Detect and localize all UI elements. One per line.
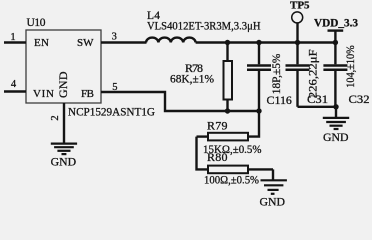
- pin 4 wire: [4, 90, 26, 92]
- svg-text:18P,±5%: 18P,±5%: [269, 54, 283, 95]
- label U10: [27, 17, 46, 29]
- svg-text:GND: GND: [260, 196, 286, 207]
- svg-text:3: 3: [112, 32, 117, 43]
- capacitor C32: [323, 43, 347, 107]
- inductor L4: [146, 38, 196, 43]
- test point TP5: [292, 12, 303, 43]
- svg-text:104,±10%: 104,±10%: [343, 45, 357, 88]
- pin name VIN: [33, 88, 54, 100]
- svg-text:R80: R80: [207, 150, 228, 164]
- resistor R78: [224, 43, 233, 112]
- wire C31/C32 bottoms: [298, 106, 337, 108]
- pin number 5: [112, 82, 117, 93]
- resistor R79: [197, 133, 249, 141]
- label TP5: [290, 0, 310, 12]
- value 15KOhm,+-0.5%: [203, 142, 262, 156]
- value 68K,+-1%: [170, 72, 214, 86]
- value 100Ohm,+-0.5%: [204, 172, 259, 186]
- label GND (U10 ground): [51, 157, 77, 169]
- svg-text:1: 1: [10, 32, 15, 43]
- svg-text:VLS4012ET-3R3M,3.3μH: VLS4012ET-3R3M,3.3μH: [147, 19, 261, 33]
- svg-text:SW: SW: [77, 37, 94, 49]
- pin name GND (rotated): [56, 71, 70, 98]
- svg-text:TP5: TP5: [290, 0, 310, 12]
- IC U10 body: [26, 30, 101, 103]
- label R78: [185, 61, 203, 75]
- svg-text:226,22μF: 226,22μF: [306, 49, 320, 98]
- node dot at C116 top: [256, 40, 261, 45]
- pin name EN: [34, 37, 49, 49]
- pin 3 wire (SW to L4): [101, 41, 147, 43]
- ground symbol at R80: [261, 180, 287, 194]
- node dot at R78 bottom: [225, 108, 230, 113]
- wire output net (L4 to C32): [196, 41, 337, 43]
- pin 1 wire: [4, 41, 26, 43]
- svg-text:100Ω,±0.5%: 100Ω,±0.5%: [204, 172, 259, 186]
- label GND (output ground): [323, 132, 349, 144]
- label C32: [349, 92, 370, 106]
- label C116: [267, 93, 292, 107]
- label NCP1529ASNT1G: [68, 104, 155, 118]
- label C31: [307, 92, 328, 106]
- capacitor C116: [247, 43, 271, 112]
- pin number 4: [11, 79, 17, 90]
- svg-text:FB: FB: [81, 88, 94, 100]
- value 104,+-10% (rotated): [343, 45, 357, 88]
- node dot at R78 top: [225, 40, 230, 45]
- pin number 2 (rotated): [50, 115, 61, 120]
- capacitor C31: [286, 43, 310, 107]
- wire R80 to ground: [272, 169, 274, 180]
- wire R79 to R80: [197, 137, 209, 170]
- ground symbol under U10 pin 2: [51, 144, 77, 155]
- node dot at ground junction: [333, 104, 338, 109]
- svg-text:R79: R79: [207, 119, 228, 133]
- svg-text:GND: GND: [51, 157, 77, 169]
- power net VDD_3.3: [314, 16, 358, 43]
- svg-text:GND: GND: [323, 132, 349, 144]
- value 18P,+-5% (rotated): [269, 54, 283, 95]
- svg-text:VDD_3.3: VDD_3.3: [314, 16, 358, 30]
- svg-text:4: 4: [11, 79, 17, 90]
- label R80: [207, 150, 228, 164]
- ground symbol at output caps: [323, 118, 349, 129]
- svg-text:VIN: VIN: [33, 88, 54, 100]
- svg-text:2: 2: [50, 115, 61, 120]
- svg-text:GND: GND: [56, 71, 70, 98]
- svg-text:5: 5: [112, 82, 117, 93]
- svg-text:NCP1529ASNT1G: NCP1529ASNT1G: [68, 104, 155, 118]
- resistor R80: [208, 166, 273, 174]
- label L4: [147, 10, 160, 22]
- pin name SW: [77, 37, 94, 49]
- svg-text:C32: C32: [349, 92, 370, 106]
- node dot at TP5/C31: [295, 40, 300, 45]
- label VLS4012ET-3R3M,3.3uH: [147, 19, 261, 33]
- FB net: pin 5 wire: [101, 92, 259, 111]
- wire FB node down to R79: [248, 111, 259, 137]
- pin number 3: [112, 32, 117, 43]
- svg-text:U10: U10: [27, 17, 46, 29]
- svg-text:EN: EN: [34, 37, 49, 49]
- pin name FB: [81, 88, 94, 100]
- value 226,22uF (rotated): [306, 49, 320, 98]
- svg-text:68K,±1%: 68K,±1%: [170, 72, 214, 86]
- wire down to output ground: [335, 107, 337, 117]
- pin number 1: [10, 32, 15, 43]
- label R79: [207, 119, 228, 133]
- pin 2 wire: [63, 103, 65, 143]
- label GND (R80 ground): [260, 196, 286, 208]
- node dot at VDD/C32: [333, 40, 338, 45]
- node dot at C116 bottom: [256, 108, 261, 113]
